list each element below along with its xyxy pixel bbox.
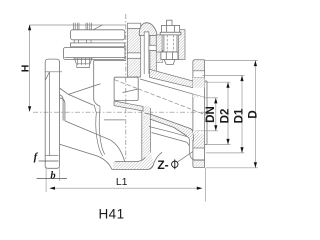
dim DN line	[215, 98, 217, 131]
right flange bore hatch sliver bottom	[193, 131, 205, 135]
body bowl arcs	[96, 112, 103, 156]
left flange bolt chord bottom	[45, 154, 58, 156]
disc edge line	[123, 89, 139, 93]
bonnet underside line	[94, 60, 126, 62]
bonnet right sectioned wall	[127, 23, 140, 77]
bolt hole top lines	[193, 71, 205, 78]
bonnet mid gasket band	[71, 43, 125, 47]
body wall band lines	[142, 106, 151, 160]
bonnet cover chamfer	[93, 25, 102, 30]
right flange hatch top	[193, 60, 204, 70]
right flange bore hatch sliver top	[193, 94, 205, 97]
svg-text:H41: H41	[99, 207, 125, 222]
left bonnet nut side view	[74, 58, 93, 67]
left flange hub line	[45, 72, 49, 156]
dim D extension top	[205, 60, 258, 62]
dim D1 extension bottom	[206, 152, 244, 154]
flange material below left of nut	[156, 50, 163, 62]
dim D line	[254, 61, 256, 168]
outlet bottom wall lower line	[150, 119, 186, 136]
svg-text:H: H	[20, 65, 32, 73]
bonnet flange lower plate	[64, 48, 126, 60]
bonnet neck left wall	[94, 61, 100, 107]
dim D2 line	[227, 82, 229, 144]
body left wall verticals	[60, 95, 65, 121]
stud right flange material	[178, 30, 185, 60]
body bottom strip hatched	[113, 152, 154, 170]
svg-text:Z-: Z-	[157, 158, 168, 172]
dim D2 extension top	[205, 81, 231, 83]
dim D2 extension bottom	[205, 144, 231, 146]
body neck lower inner wall	[68, 94, 93, 105]
centerline vertical bonnet axis	[125, 14, 127, 170]
left flange outline	[45, 59, 59, 168]
centerline segments over disc	[125, 78, 127, 101]
dimension H line	[30, 25, 126, 112]
bonnet cover cap plate	[71, 30, 125, 40]
dim L1 line	[50, 187, 202, 189]
stud shank	[164, 35, 177, 52]
right flange hatch upper-mid	[193, 78, 205, 88]
dim f line	[39, 160, 59, 162]
svg-text:DN: DN	[205, 106, 217, 123]
guide short lines	[94, 105, 100, 113]
outlet bore upper line	[140, 79, 205, 97]
bonnet stem slot	[144, 32, 149, 74]
leader line	[178, 152, 193, 162]
seat lower line	[104, 119, 125, 121]
svg-text:b: b	[50, 171, 55, 182]
centerline inclined disc axis	[114, 80, 206, 116]
outlet bottom wall upper line	[145, 113, 194, 141]
seat ring band	[114, 101, 143, 111]
body wall band below seat hatched	[142, 106, 151, 160]
body lower-left inner wall	[65, 121, 125, 162]
dim L1 right extension	[205, 168, 207, 201]
centerline horizontal pipe axis	[33, 111, 213, 113]
stud washer	[160, 32, 181, 35]
arrow H bottom	[28, 106, 31, 112]
left flange bolt chord top	[45, 71, 62, 73]
bonnet gland dome	[139, 23, 157, 36]
dim b line	[37, 178, 67, 180]
lower plate inner line	[65, 57, 125, 59]
dim D extension bottom	[206, 167, 258, 169]
label Z-phi	[157, 152, 193, 173]
bonnet right flange section	[149, 36, 156, 75]
raised face	[205, 81, 208, 145]
body bottom inner line	[115, 157, 145, 161]
stud bolt top nut	[162, 25, 180, 32]
flange hub blob hatched	[191, 133, 205, 148]
bore bottom line at flange	[194, 131, 205, 132]
svg-text:D2: D2	[220, 109, 232, 124]
body lower-left outer wall	[60, 144, 112, 169]
stud bottom nut	[161, 52, 178, 64]
outlet bottom wall band hatched	[144, 113, 193, 140]
svg-text:D1: D1	[233, 108, 245, 123]
body neck from flange	[60, 88, 69, 94]
outlet pipe outer line	[149, 127, 205, 160]
svg-text:L1: L1	[116, 176, 128, 188]
bolt shanks between plates	[74, 40, 91, 43]
bonnet top bolts	[74, 23, 92, 30]
body bottom outer line with corner stub	[112, 152, 162, 169]
dim b extension lines	[46, 167, 59, 192]
bolt hole bottom lines	[193, 148, 205, 161]
svg-text:D: D	[248, 110, 260, 118]
dim D1 line	[241, 76, 243, 153]
svg-text:f: f	[34, 151, 39, 163]
body neck upper wall	[68, 84, 100, 95]
stud left flange material	[156, 35, 162, 52]
dim DN extension top	[205, 97, 219, 99]
outlet pipe outer line 2	[152, 133, 189, 146]
right flange hatch bottom	[193, 161, 204, 167]
dim DN extension bottom	[205, 130, 219, 132]
disc square	[114, 77, 138, 100]
right flange slab	[193, 60, 205, 168]
arrow H top	[28, 25, 31, 31]
outlet cone upper wall band	[150, 69, 193, 87]
stud tip	[167, 20, 172, 25]
dim D1 extension top	[202, 75, 244, 77]
